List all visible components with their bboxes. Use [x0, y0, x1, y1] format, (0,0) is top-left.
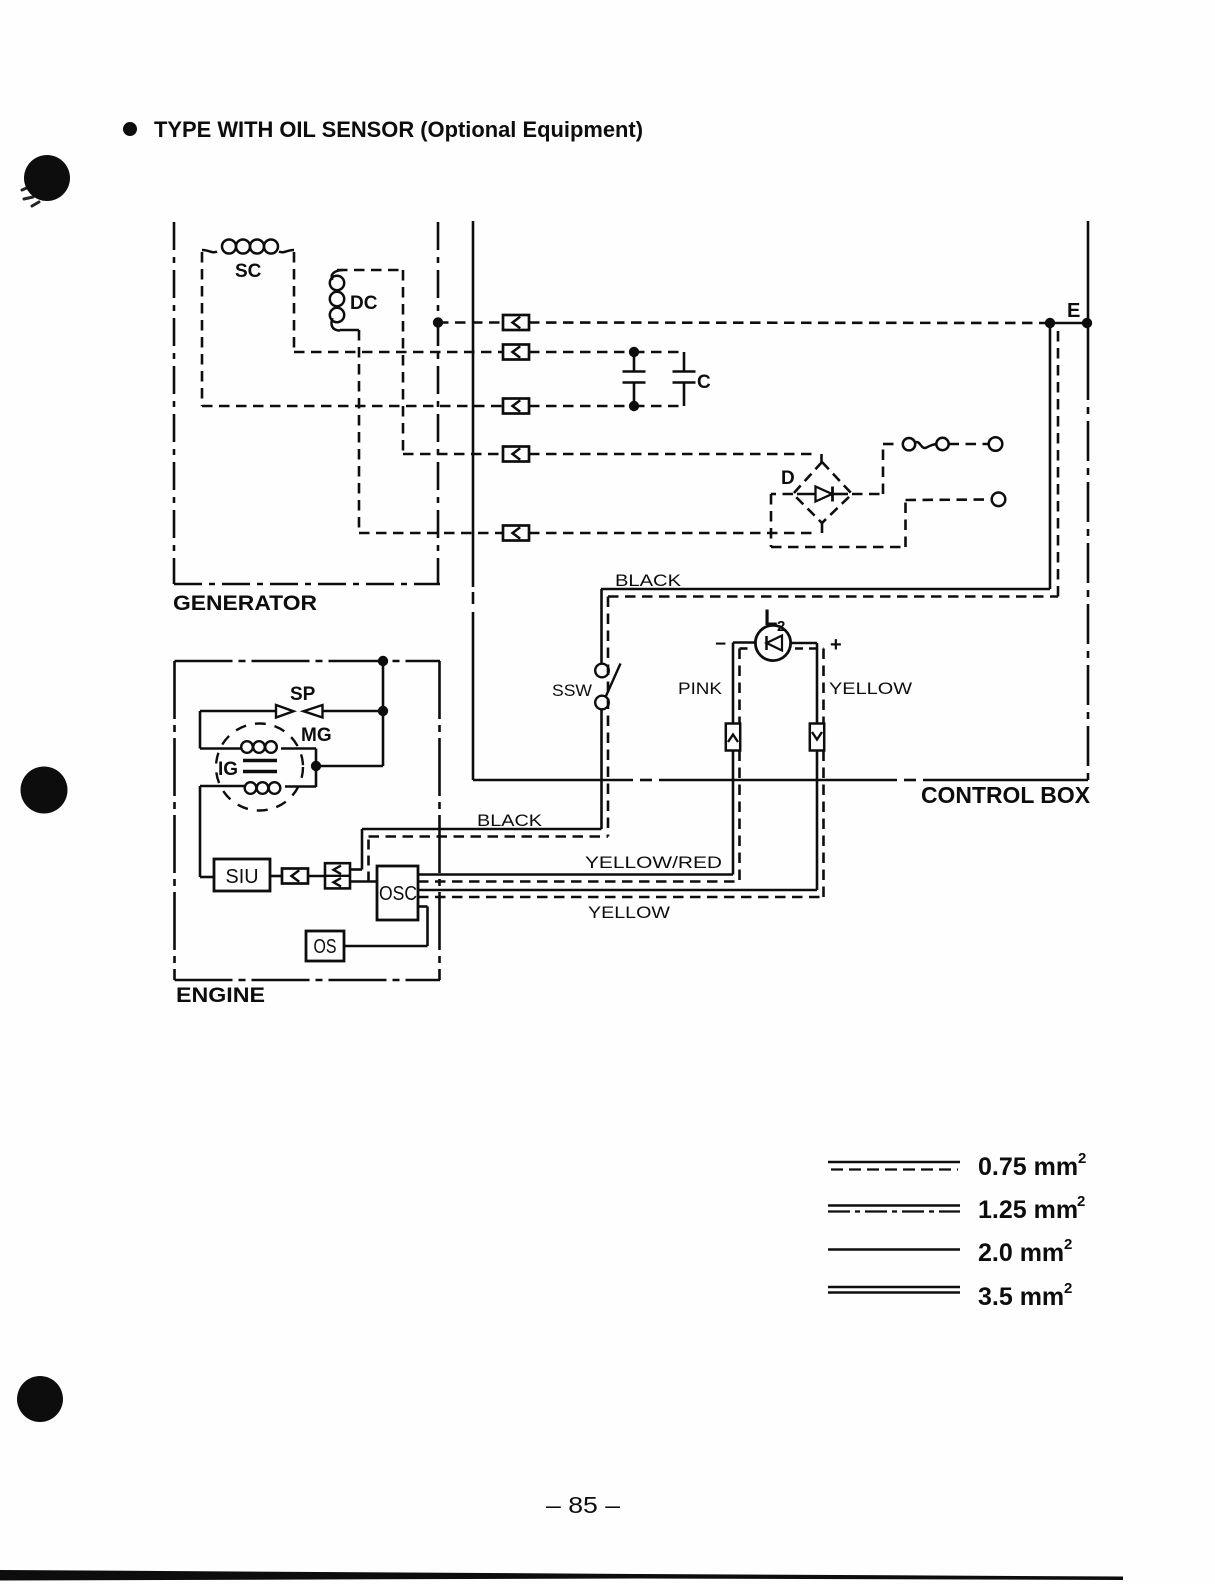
svg-text:D: D — [781, 468, 795, 489]
lamp L2 — [755, 625, 790, 660]
svg-text:IG: IG — [218, 759, 238, 780]
node dot row1 on x=438 — [433, 317, 443, 327]
connector row4 — [503, 447, 529, 462]
wire cap branch top dashed — [634, 351, 684, 354]
switch SSW — [595, 664, 609, 678]
wire SSW lower solid — [600, 710, 603, 830]
wire OS to OSC — [344, 945, 428, 948]
engine box top edge — [175, 660, 441, 663]
terminal circle upper — [989, 437, 1003, 451]
connector single (engine) — [282, 869, 308, 884]
wire PINK vertical pair — [732, 643, 735, 875]
wire double connector to BLACK riser — [350, 868, 362, 871]
svg-text:2.0 mm: 2.0 mm — [978, 1239, 1064, 1267]
wire SP right — [323, 710, 383, 713]
svg-text:3.5 mm: 3.5 mm — [978, 1283, 1064, 1311]
svg-text:SC: SC — [235, 261, 262, 282]
wire IG top lead left — [200, 747, 241, 750]
wire SSW dashed parallel — [607, 597, 610, 837]
wire bridge left/bottom loop — [771, 493, 793, 496]
connector row2 — [503, 345, 529, 360]
wire BLACK riser solid — [361, 829, 364, 870]
wire engine vertical x=383 — [382, 661, 385, 766]
legend 1.25mm line — [828, 1204, 960, 1206]
breaker circles with wavy link — [903, 438, 915, 450]
wire E stub — [1050, 322, 1087, 325]
svg-text:SIU: SIU — [226, 866, 259, 888]
svg-text:E: E — [1067, 300, 1080, 322]
wire IG top lead right — [281, 747, 316, 750]
wire connector to double connector — [308, 875, 325, 878]
svg-text:SSW: SSW — [552, 681, 592, 700]
svg-text:ENGINE: ENGINE — [176, 984, 265, 1007]
wire row2 dashed y=352 — [294, 351, 503, 354]
magneto MG dashed circle — [216, 724, 303, 811]
capacitor C2 — [683, 352, 686, 371]
wire breaker to terminal — [949, 443, 989, 446]
svg-text:PINK: PINK — [678, 679, 723, 698]
box SIU — [214, 859, 270, 891]
wire BLACK upper pair horizontal — [601, 588, 1050, 591]
legend 0.75mm line — [828, 1161, 960, 1163]
IG core bars — [243, 759, 277, 762]
svg-text:2: 2 — [1064, 1280, 1072, 1297]
node dot E on x=1088 — [1082, 318, 1092, 328]
node dot SP junction — [378, 706, 388, 716]
svg-text:1.25 mm: 1.25 mm — [978, 1196, 1078, 1224]
wire BLACK riser dashed — [367, 837, 370, 882]
svg-text:MG: MG — [301, 725, 332, 746]
svg-text:– 85 –: – 85 – — [546, 1492, 620, 1518]
legend 2.0mm line — [828, 1248, 960, 1251]
bottom scan bar — [0, 1570, 1123, 1581]
connector row3 — [503, 399, 529, 414]
svg-text:2: 2 — [777, 618, 785, 635]
engine box left edge — [173, 661, 176, 980]
diode bridge D outline — [793, 462, 852, 523]
wire row5 dashed y=533 — [359, 532, 503, 535]
generator box left edge — [173, 222, 176, 584]
svg-text:OSC: OSC — [379, 883, 417, 905]
node dot E left — [1045, 318, 1055, 328]
svg-text:YELLOW: YELLOW — [588, 903, 670, 922]
wire double connector to OSC — [350, 880, 377, 883]
svg-text:BLACK: BLACK — [477, 811, 543, 830]
svg-text:BLACK: BLACK — [615, 571, 682, 590]
wire YELLOW pair — [418, 889, 817, 892]
connector row5 — [503, 526, 529, 541]
box OS — [306, 931, 344, 961]
wire row3 dashed y=406 (SC bottom) — [202, 405, 503, 408]
svg-text:L: L — [764, 605, 777, 630]
node dot row2/cap — [629, 347, 639, 357]
DC coil bottom lead — [340, 329, 359, 332]
SC box left edge — [201, 252, 204, 406]
node dot IG right — [311, 761, 321, 771]
svg-text:TYPE WITH OIL SENSOR (Optional: TYPE WITH OIL SENSOR (Optional Equipment… — [154, 117, 643, 142]
bridge diode symbol — [797, 493, 816, 496]
wire DC-bottom vertical dashed x=359 — [358, 330, 361, 533]
capacitor C1 — [633, 352, 636, 371]
title bullet — [123, 122, 137, 136]
wire bridge right to breaker — [852, 493, 883, 496]
wire row1 (E line) dashed y=323 — [438, 321, 503, 324]
terminal circle lower — [992, 493, 1006, 507]
wire IG bottom lead — [200, 785, 245, 788]
legend 3.5mm line — [828, 1286, 960, 1288]
node dot row3/cap — [629, 401, 639, 411]
wire IG to SIU — [199, 786, 202, 877]
svg-text:C: C — [697, 372, 711, 393]
wire row4 dashed y=454 — [403, 453, 503, 456]
engine box right edge — [438, 661, 441, 980]
DC box top edge — [337, 269, 403, 272]
punch hole dot middle-left — [21, 767, 68, 814]
wire IG to vertical — [316, 765, 383, 768]
long vertical line x=473 generator to control box — [472, 221, 475, 587]
punch hole dot top-left — [24, 155, 70, 201]
node vertical line (chain) through generator x=438 — [437, 222, 440, 584]
svg-text:0.75 mm: 0.75 mm — [978, 1153, 1078, 1181]
svg-text:−: − — [715, 634, 726, 655]
wire YELLOW vertical pair — [816, 643, 819, 890]
svg-text:2: 2 — [1078, 1150, 1086, 1167]
svg-text:2: 2 — [1064, 1236, 1072, 1253]
punch hole dot bottom-left — [17, 1376, 63, 1422]
svg-text:YELLOW/RED: YELLOW/RED — [585, 853, 722, 872]
control box bottom edge — [473, 779, 633, 782]
coil DC — [330, 276, 344, 290]
wire cap branch bottom dashed — [634, 405, 684, 408]
generator box bottom edge — [174, 583, 440, 586]
wire BLACK upper pair vertical right — [1049, 323, 1052, 589]
svg-text:OS: OS — [314, 936, 337, 958]
svg-text:SP: SP — [290, 684, 316, 705]
punch hole smudge — [22, 187, 39, 206]
spark plug SP gap — [276, 705, 294, 718]
wire SIU to connector — [270, 875, 282, 878]
svg-text:YELLOW: YELLOW — [829, 679, 912, 698]
svg-text:GENERATOR: GENERATOR — [173, 592, 317, 615]
svg-text:CONTROL BOX: CONTROL BOX — [921, 782, 1091, 808]
connector row1 — [503, 315, 529, 330]
wire lamp left lead — [733, 641, 756, 644]
svg-text:+: + — [830, 634, 842, 656]
connector on PINK wire — [726, 724, 740, 751]
engine box bottom edge — [175, 979, 441, 982]
svg-text:DC: DC — [350, 293, 378, 314]
coil IG secondary — [245, 782, 257, 794]
coil IG primary — [241, 741, 253, 753]
wire BLACK lower pair horizontal — [362, 828, 602, 831]
connector double (engine) — [325, 863, 350, 888]
DC box right edge — [402, 270, 405, 454]
wire SP left — [200, 710, 275, 713]
wire YELLOW/RED pair — [418, 873, 733, 876]
wire lamp right lead — [791, 642, 818, 645]
svg-text:2: 2 — [1077, 1193, 1085, 1210]
SC box right edge — [293, 252, 296, 352]
connector on YELLOW wire — [810, 724, 824, 751]
control box right edge x=1088 — [1087, 221, 1090, 360]
wire SSW drop solid — [600, 589, 603, 664]
box OSC — [377, 866, 418, 920]
coil SC — [222, 240, 236, 254]
node dot engine top — [378, 656, 388, 666]
wire IG right edge — [315, 749, 318, 788]
